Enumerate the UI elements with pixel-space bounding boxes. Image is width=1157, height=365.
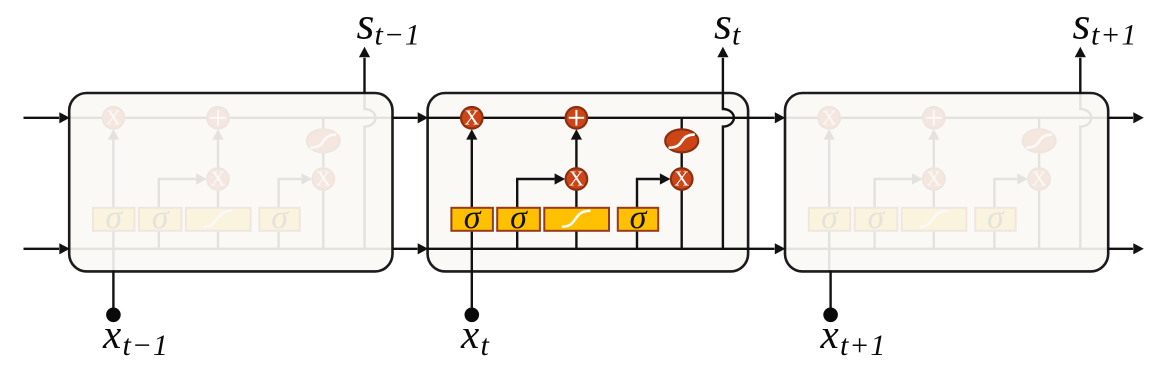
svg-text:X: X [1032,167,1047,191]
svg-text:X: X [926,167,941,191]
wire: tanh box output up to multiplier X2, cell t [575,190,577,208]
wire: s output arrow above cell t [722,58,724,94]
wire: multiplier X3 down to bottom line, cell t [681,190,683,249]
wire: tanh box input from bottom line, cell t-1 [217,231,219,249]
wire: σ4 input from bottom line, cell t [636,231,638,249]
internal circuitry of cell t [428,93,748,271]
wire: s output arrow above cell t+1 [1079,58,1081,94]
svg-text:σ: σ [868,199,886,236]
wire: multiplier X2 up to adder +, cell t+1 [933,139,935,169]
wire: x input rising through σ1 to bottom line, cell t-1 [112,231,114,272]
wire: tanh box output up to multiplier X2, cell t+1 [933,190,935,208]
gate box σ4 (output), cell t [618,208,658,231]
gate box σ2 (input), cell t-1 [139,208,182,231]
wire: tanh box input from bottom line, cell t [575,231,577,249]
wire: σ2 input from bottom line, cell t [516,231,518,249]
multiplier X2, cell t-1 [207,168,229,190]
cell body rounded rectangle, cell t+1 [785,93,1108,271]
wire: σ2 input from bottom line, cell t+1 [873,231,875,249]
svg-text:X: X [822,105,837,129]
wire: cell state down through tanh ellipse to X3, cell t+1 [1038,118,1040,168]
svg-text:x: x [102,311,121,357]
faded internal circuitry of cell t-1 [69,93,392,271]
wire: output gate σ4 to multiplier X3, cell t [637,179,660,208]
multiplier X3, cell t-1 [313,168,335,190]
wire: σ4 input from bottom line, cell t+1 [993,231,995,249]
faded internal circuitry of cell t+1 [785,93,1108,271]
wire: multiplier X2 up to adder +, cell t-1 [217,139,219,169]
wire: input gate σ2 output to multiplier X2, cell t [517,179,554,208]
svg-text:t: t [481,329,490,362]
gate box σ4 (output), cell t-1 [259,208,299,231]
wire: σ2 input from bottom line, cell t-1 [158,231,160,249]
svg-text:s: s [1073,0,1091,49]
wire: x input rising through σ1 to bottom line, cell t [471,231,473,272]
wire: cell state down through tanh ellipse to X3, cell t-1 [322,118,324,168]
multiplier X3, cell t+1 [1028,168,1050,190]
wire: output arrow from cell t+1, top [1108,117,1133,119]
svg-text:t−1: t−1 [123,329,169,362]
cell body rounded rectangle, cell t [428,93,748,271]
svg-text:s: s [714,0,732,49]
wire: cell t to cell t+1, bottom [748,248,774,250]
svg-text:σ: σ [510,199,528,236]
svg-text:σ: σ [987,199,1005,236]
wire: cell-state top line, cell t+1 [785,117,1108,119]
wire: input gate σ2 output to multiplier X2, cell t-1 [159,179,196,208]
multiplier X1 on cell-state line, cell t+1 [818,107,840,129]
gate box tanh (candidate), cell t-1 [186,208,251,231]
wire: input gate σ2 output to multiplier X2, cell t+1 [875,179,912,208]
tanh ellipse on output path, cell t [665,129,698,152]
node: x input terminal dot, cell t-1 [106,308,121,323]
svg-text:X: X [210,167,225,191]
svg-text:σ: σ [152,199,170,236]
wire: x input stem below cell t+1 [829,270,831,308]
wire: output arrow from cell t+1, bottom [1108,248,1133,250]
node: x input terminal dot, cell t+1 [823,308,838,323]
gate box σ1 (forget), cell t-1 [93,208,135,231]
svg-text:X: X [316,167,331,191]
wire: cell t to cell t+1, top [748,117,774,119]
node: x input terminal dot, cell t [465,308,480,323]
gate box σ4 (output), cell t+1 [975,208,1015,231]
wire: x input stem below cell t-1 [112,270,114,308]
adder + on cell-state line, cell t [566,107,588,129]
wire: s output from bottom line with hop over cell-state line, cell t+1 [1080,93,1091,249]
wire: hidden-state bottom line, cell t [428,248,748,250]
wire: s output from bottom line with hop over cell-state line, cell t-1 [365,93,376,249]
svg-text:X: X [464,105,479,129]
wire: s output arrow above cell t-1 [363,58,365,94]
wire: input arrow into cell t-1, bottom [24,248,60,250]
wire: tanh box input from bottom line, cell t+1 [933,231,935,249]
gate box σ2 (input), cell t [497,208,540,231]
svg-text:t−1: t−1 [375,19,421,52]
wire: cell state down through tanh ellipse to X3, cell t [681,118,683,168]
svg-text:t+1: t+1 [840,329,886,362]
svg-text:x: x [820,311,839,357]
wire: x input stem below cell t [471,270,473,308]
wire: cell t-1 to cell t, bottom [393,248,418,250]
wire: forget gate σ1 output up to multiplier X1, cell t+1 [828,139,830,208]
svg-text:s: s [357,0,375,49]
wire: cell-state top line, cell t-1 [69,117,392,119]
svg-text:t+1: t+1 [1091,19,1137,52]
wire: σ4 input from bottom line, cell t-1 [277,231,279,249]
svg-text:σ: σ [630,199,648,236]
wire: s output from bottom line with hop over cell-state line, cell t [723,93,734,249]
svg-text:σ: σ [821,199,839,236]
wire: multiplier X2 up to adder +, cell t [575,139,577,169]
multiplier X3, cell t [671,168,693,190]
tanh ellipse on output path, cell t+1 [1023,129,1056,152]
wire: cell t-1 to cell t, top [393,117,418,119]
wire: cell-state top line, cell t [428,117,748,119]
adder + on cell-state line, cell t+1 [923,107,945,129]
svg-text:σ: σ [105,199,123,236]
svg-text:σ: σ [464,199,482,236]
gate box σ2 (input), cell t+1 [855,208,898,231]
wire: forget gate σ1 output up to multiplier X1, cell t-1 [112,139,114,208]
gate box σ1 (forget), cell t [451,208,493,231]
svg-text:X: X [106,105,121,129]
gate box tanh (candidate), cell t [544,208,609,231]
wire: input arrow into cell t-1, top [24,117,60,119]
svg-text:x: x [460,311,479,357]
wire: multiplier X3 down to bottom line, cell t+1 [1038,190,1040,249]
wire: output gate σ4 to multiplier X3, cell t-1 [279,179,302,208]
cell body rounded rectangle, cell t-1 [69,93,392,271]
wire: forget gate σ1 output up to multiplier X1, cell t [471,139,473,208]
multiplier X2, cell t+1 [923,168,945,190]
adder + on cell-state line, cell t-1 [207,107,229,129]
gate box σ1 (forget), cell t+1 [809,208,851,231]
svg-text:t: t [732,19,741,52]
wire: output gate σ4 to multiplier X3, cell t+1 [994,179,1017,208]
wire: hidden-state bottom line, cell t-1 [69,248,392,250]
wire: tanh box output up to multiplier X2, cell t-1 [217,190,219,208]
svg-text:X: X [674,167,689,191]
wire: multiplier X3 down to bottom line, cell t-1 [322,190,324,249]
wire: hidden-state bottom line, cell t+1 [785,248,1108,250]
svg-text:σ: σ [271,199,289,236]
multiplier X1 on cell-state line, cell t-1 [103,107,125,129]
multiplier X2, cell t [566,168,588,190]
gate box tanh (candidate), cell t+1 [902,208,967,231]
svg-text:X: X [569,167,584,191]
wire: x input rising through σ1 to bottom line, cell t+1 [828,231,830,272]
multiplier X1 on cell-state line, cell t [461,107,483,129]
tanh ellipse on output path, cell t-1 [307,129,340,152]
